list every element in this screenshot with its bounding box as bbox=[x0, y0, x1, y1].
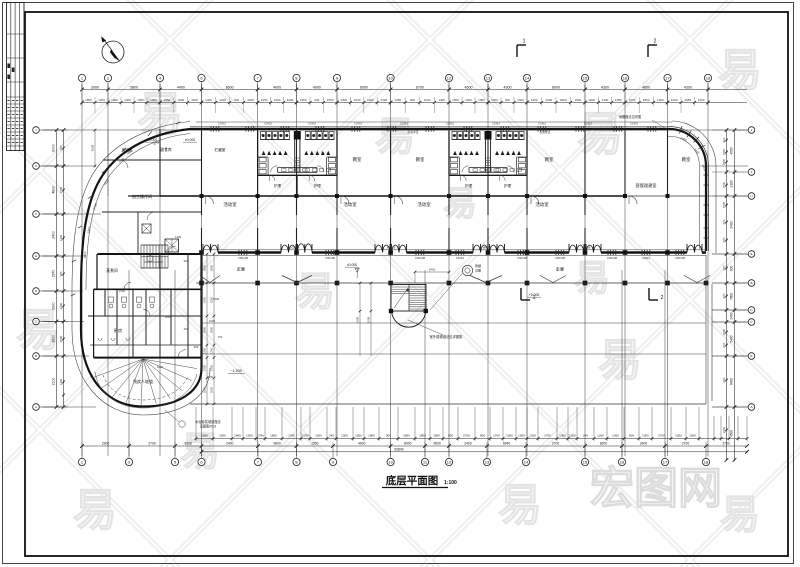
svg-text:1950: 1950 bbox=[615, 98, 622, 102]
svg-text:M5028: M5028 bbox=[582, 246, 591, 250]
svg-text:C5012B: C5012B bbox=[675, 256, 685, 260]
svg-text:14: 14 bbox=[525, 75, 530, 80]
svg-text:C2415: C2415 bbox=[264, 122, 272, 126]
svg-text:8200: 8200 bbox=[600, 441, 608, 445]
svg-text:5800: 5800 bbox=[130, 85, 138, 89]
svg-text:18: 18 bbox=[706, 75, 711, 80]
svg-text:1300: 1300 bbox=[341, 434, 348, 438]
svg-text:±0.000: ±0.000 bbox=[185, 138, 195, 142]
svg-text:2400: 2400 bbox=[464, 441, 472, 445]
svg-text:900: 900 bbox=[386, 434, 391, 438]
svg-text:1780: 1780 bbox=[288, 434, 295, 438]
svg-text:4000: 4000 bbox=[313, 85, 321, 89]
svg-text:1500: 1500 bbox=[177, 98, 184, 102]
svg-text:2400: 2400 bbox=[722, 158, 726, 165]
svg-text:教室: 教室 bbox=[545, 156, 554, 163]
svg-text:1800: 1800 bbox=[643, 98, 650, 102]
svg-text:1500: 1500 bbox=[85, 98, 92, 102]
svg-text:活动室: 活动室 bbox=[417, 201, 431, 208]
svg-text:1950: 1950 bbox=[327, 98, 334, 102]
svg-text:M5028: M5028 bbox=[483, 246, 492, 250]
svg-text:1300: 1300 bbox=[340, 98, 347, 102]
svg-text:3900: 3900 bbox=[91, 85, 99, 89]
svg-text:900: 900 bbox=[59, 145, 63, 150]
svg-text:1400: 1400 bbox=[491, 98, 498, 102]
svg-text:1400: 1400 bbox=[367, 98, 374, 102]
svg-text:960: 960 bbox=[194, 345, 199, 349]
svg-text:1400: 1400 bbox=[124, 98, 131, 102]
svg-text:69840: 69840 bbox=[394, 448, 403, 452]
svg-text:1200: 1200 bbox=[545, 98, 552, 102]
svg-text:2100: 2100 bbox=[52, 378, 56, 386]
svg-text:16: 16 bbox=[620, 459, 625, 464]
svg-text:E: E bbox=[35, 254, 37, 258]
svg-text:4500: 4500 bbox=[730, 147, 734, 154]
svg-text:2700: 2700 bbox=[544, 434, 551, 438]
svg-text:C5012B: C5012B bbox=[238, 256, 248, 260]
svg-text:4300: 4300 bbox=[601, 85, 609, 89]
svg-text:1200: 1200 bbox=[597, 434, 604, 438]
svg-text:H: H bbox=[750, 194, 752, 198]
svg-text:900: 900 bbox=[505, 98, 510, 102]
svg-text:C2415: C2415 bbox=[538, 122, 546, 126]
svg-text:1500: 1500 bbox=[59, 335, 63, 342]
svg-text:2900: 2900 bbox=[209, 264, 213, 271]
svg-text:贮藏室: 贮藏室 bbox=[215, 147, 226, 152]
svg-text:1:100: 1:100 bbox=[444, 480, 457, 486]
svg-text:1500: 1500 bbox=[518, 434, 525, 438]
svg-text:14: 14 bbox=[524, 459, 529, 464]
svg-text:16: 16 bbox=[623, 75, 628, 80]
svg-text:雨棚: 雨棚 bbox=[475, 263, 481, 268]
svg-text:900: 900 bbox=[722, 293, 726, 298]
svg-text:1500: 1500 bbox=[722, 148, 726, 155]
svg-text:活动室: 活动室 bbox=[223, 201, 237, 208]
svg-text:900: 900 bbox=[184, 259, 189, 263]
svg-text:护理: 护理 bbox=[274, 183, 282, 188]
svg-text:4400: 4400 bbox=[177, 85, 185, 89]
svg-text:600: 600 bbox=[722, 265, 726, 270]
svg-text:1400: 1400 bbox=[517, 98, 524, 102]
svg-text:900: 900 bbox=[448, 434, 453, 438]
svg-text:1500: 1500 bbox=[246, 434, 253, 438]
svg-text:1950: 1950 bbox=[395, 98, 402, 102]
svg-text:易: 易 bbox=[574, 257, 610, 298]
svg-text:1600: 1600 bbox=[157, 365, 164, 369]
svg-text:B: B bbox=[35, 354, 37, 358]
svg-text:1600: 1600 bbox=[629, 98, 636, 102]
svg-text:18: 18 bbox=[704, 459, 709, 464]
svg-text:易: 易 bbox=[443, 185, 477, 223]
svg-text:900: 900 bbox=[410, 98, 415, 102]
svg-text:8200: 8200 bbox=[185, 441, 193, 445]
svg-text:残疾人坡道: 残疾人坡道 bbox=[133, 378, 153, 384]
svg-text:1500: 1500 bbox=[219, 434, 226, 438]
svg-text:240: 240 bbox=[583, 434, 588, 438]
svg-text:1800: 1800 bbox=[270, 434, 277, 438]
svg-text:1300: 1300 bbox=[150, 98, 157, 102]
svg-text:1950: 1950 bbox=[261, 98, 268, 102]
svg-text:C5012B: C5012B bbox=[517, 256, 527, 260]
svg-text:C3612: C3612 bbox=[642, 256, 651, 260]
svg-text:1000: 1000 bbox=[209, 319, 216, 323]
svg-text:1400: 1400 bbox=[438, 98, 445, 102]
svg-text:副食库: 副食库 bbox=[160, 147, 172, 152]
svg-text:17: 17 bbox=[665, 75, 670, 80]
svg-text:17: 17 bbox=[663, 459, 668, 464]
svg-text:4500: 4500 bbox=[465, 85, 473, 89]
svg-text:8000: 8000 bbox=[404, 441, 412, 445]
svg-text:1200: 1200 bbox=[59, 234, 63, 241]
svg-text:6700: 6700 bbox=[416, 85, 424, 89]
svg-text:1200: 1200 bbox=[671, 98, 678, 102]
svg-text:M5028: M5028 bbox=[288, 246, 297, 250]
svg-text:4300: 4300 bbox=[684, 85, 692, 89]
svg-text:1000: 1000 bbox=[478, 98, 485, 102]
svg-text:10: 10 bbox=[388, 75, 393, 80]
svg-text:900: 900 bbox=[234, 98, 239, 102]
svg-text:2700: 2700 bbox=[682, 441, 690, 445]
svg-text:1800: 1800 bbox=[213, 297, 220, 301]
svg-text:见图集05J1: 见图集05J1 bbox=[200, 424, 217, 429]
svg-text:10: 10 bbox=[388, 459, 393, 464]
svg-text:2600: 2600 bbox=[165, 315, 172, 319]
svg-text:+0.000: +0.000 bbox=[529, 293, 540, 297]
svg-text:2100: 2100 bbox=[730, 180, 734, 187]
svg-text:F: F bbox=[35, 212, 37, 216]
svg-text:4800: 4800 bbox=[52, 186, 56, 194]
svg-text:1800: 1800 bbox=[403, 434, 410, 438]
svg-text:详图: 详图 bbox=[475, 268, 481, 273]
svg-text:1600: 1600 bbox=[381, 98, 388, 102]
svg-text:12: 12 bbox=[447, 459, 452, 464]
svg-text:C4012: C4012 bbox=[456, 256, 465, 260]
svg-text:4600: 4600 bbox=[358, 441, 366, 445]
svg-text:活动室: 活动室 bbox=[343, 201, 357, 208]
svg-text:−1.200: −1.200 bbox=[230, 369, 242, 373]
svg-text:700: 700 bbox=[218, 335, 223, 339]
svg-text:易: 易 bbox=[720, 493, 760, 537]
svg-text:4000: 4000 bbox=[90, 144, 94, 151]
svg-text:900: 900 bbox=[629, 434, 634, 438]
svg-text:1800: 1800 bbox=[83, 251, 88, 258]
svg-text:1000: 1000 bbox=[574, 98, 581, 102]
svg-text:教室: 教室 bbox=[682, 156, 691, 163]
svg-text:6000: 6000 bbox=[52, 144, 56, 152]
svg-text:4600: 4600 bbox=[642, 85, 650, 89]
svg-text:8600: 8600 bbox=[226, 85, 234, 89]
svg-text:1300: 1300 bbox=[612, 434, 619, 438]
svg-text:2400: 2400 bbox=[429, 268, 436, 272]
svg-text:1200: 1200 bbox=[675, 434, 682, 438]
svg-text:4500: 4500 bbox=[433, 441, 441, 445]
svg-text:300: 300 bbox=[184, 327, 189, 331]
svg-text:高窗详见: 高窗详见 bbox=[539, 130, 550, 134]
svg-text:600: 600 bbox=[722, 342, 726, 347]
svg-text:教室: 教室 bbox=[416, 156, 425, 163]
svg-text:1300: 1300 bbox=[602, 98, 609, 102]
svg-text:15: 15 bbox=[583, 459, 588, 464]
svg-text:易: 易 bbox=[598, 336, 642, 385]
svg-text:600: 600 bbox=[722, 377, 726, 382]
svg-text:3300: 3300 bbox=[52, 302, 56, 310]
svg-text:C5012B: C5012B bbox=[415, 256, 425, 260]
svg-text:1400: 1400 bbox=[175, 235, 182, 239]
svg-text:2400: 2400 bbox=[52, 231, 56, 239]
svg-text:蒸煮间: 蒸煮间 bbox=[106, 268, 118, 273]
svg-text:2900: 2900 bbox=[209, 326, 213, 333]
svg-text:4000: 4000 bbox=[273, 85, 281, 89]
svg-text:1400: 1400 bbox=[205, 98, 212, 102]
svg-text:2900: 2900 bbox=[202, 326, 206, 333]
svg-text:底层平面图: 底层平面图 bbox=[386, 474, 439, 487]
svg-text:1400: 1400 bbox=[247, 98, 254, 102]
svg-text:厨房: 厨房 bbox=[114, 327, 122, 334]
svg-text:2400: 2400 bbox=[59, 302, 63, 309]
svg-text:易: 易 bbox=[295, 270, 335, 314]
svg-text:C2415: C2415 bbox=[218, 122, 226, 126]
svg-text:1500: 1500 bbox=[59, 186, 63, 193]
svg-text:易: 易 bbox=[577, 108, 623, 160]
svg-text:1950: 1950 bbox=[300, 98, 307, 102]
svg-text:2900: 2900 bbox=[202, 264, 206, 271]
svg-text:C2415: C2415 bbox=[354, 122, 362, 126]
svg-text:900: 900 bbox=[480, 434, 485, 438]
svg-text:C5012B: C5012B bbox=[325, 256, 335, 260]
svg-text:C2415: C2415 bbox=[308, 122, 316, 126]
svg-text:1500: 1500 bbox=[355, 434, 362, 438]
svg-text:600: 600 bbox=[722, 219, 726, 224]
svg-text:护理: 护理 bbox=[314, 183, 322, 188]
svg-text:2970: 2970 bbox=[52, 270, 56, 278]
svg-text:1950: 1950 bbox=[684, 98, 691, 102]
svg-text:1200: 1200 bbox=[209, 347, 213, 354]
svg-text:M5028: M5028 bbox=[387, 246, 396, 250]
svg-text:1500: 1500 bbox=[506, 434, 513, 438]
svg-text:4300: 4300 bbox=[504, 85, 512, 89]
svg-text:1: 1 bbox=[523, 39, 526, 45]
svg-text:2400: 2400 bbox=[730, 221, 734, 228]
svg-text:护理: 护理 bbox=[504, 183, 512, 188]
svg-text:1500: 1500 bbox=[722, 201, 726, 208]
svg-text:2700: 2700 bbox=[552, 441, 560, 445]
svg-text:2400: 2400 bbox=[722, 426, 726, 433]
svg-text:900: 900 bbox=[59, 271, 63, 276]
svg-text:900: 900 bbox=[730, 266, 734, 272]
svg-text:5400: 5400 bbox=[730, 335, 734, 342]
svg-text:教室: 教室 bbox=[353, 156, 362, 163]
svg-text:900: 900 bbox=[314, 98, 319, 102]
svg-text:1000: 1000 bbox=[111, 98, 118, 102]
svg-text:A: A bbox=[35, 405, 37, 409]
svg-text:13: 13 bbox=[485, 459, 490, 464]
svg-text:1800: 1800 bbox=[433, 434, 440, 438]
svg-text:C5012B: C5012B bbox=[607, 256, 617, 260]
svg-text:240: 240 bbox=[329, 434, 334, 438]
svg-text:1200: 1200 bbox=[59, 378, 63, 385]
svg-text:2100: 2100 bbox=[202, 364, 206, 371]
svg-text:B: B bbox=[750, 354, 752, 358]
svg-text:1860: 1860 bbox=[234, 434, 241, 438]
svg-text:2700: 2700 bbox=[658, 434, 665, 438]
svg-text:1500: 1500 bbox=[689, 434, 696, 438]
svg-text:6000: 6000 bbox=[360, 85, 368, 89]
svg-text:2700: 2700 bbox=[493, 434, 500, 438]
svg-text:8000: 8000 bbox=[552, 85, 560, 89]
svg-text:1300: 1300 bbox=[657, 98, 664, 102]
svg-text:2300: 2300 bbox=[102, 441, 110, 445]
svg-text:易: 易 bbox=[498, 481, 542, 530]
svg-text:走廊: 走廊 bbox=[556, 266, 564, 273]
svg-text:1300: 1300 bbox=[531, 98, 538, 102]
svg-text:C2415: C2415 bbox=[584, 122, 592, 126]
svg-text:2400: 2400 bbox=[226, 441, 234, 445]
svg-text:2100: 2100 bbox=[209, 364, 213, 371]
svg-text:1600: 1600 bbox=[424, 98, 431, 102]
svg-text:E: E bbox=[750, 252, 752, 256]
svg-text:A: A bbox=[750, 405, 752, 409]
svg-text:K: K bbox=[35, 164, 37, 168]
svg-text:2400: 2400 bbox=[207, 375, 214, 379]
svg-text:C2415: C2415 bbox=[630, 122, 638, 126]
svg-text:1000: 1000 bbox=[354, 98, 361, 102]
svg-text:C2415: C2415 bbox=[446, 122, 454, 126]
svg-text:2400: 2400 bbox=[730, 312, 734, 319]
svg-text:易: 易 bbox=[375, 115, 415, 159]
svg-text:4500: 4500 bbox=[730, 430, 734, 437]
svg-text:1600: 1600 bbox=[698, 98, 705, 102]
svg-text:3300: 3300 bbox=[202, 296, 206, 303]
svg-text:8400: 8400 bbox=[730, 378, 734, 385]
svg-text:12: 12 bbox=[447, 75, 452, 80]
svg-text:2: 2 bbox=[654, 39, 657, 45]
svg-text:加工操作间: 加工操作间 bbox=[132, 193, 152, 199]
svg-text:高窗详见: 高窗详见 bbox=[407, 130, 418, 134]
svg-text:2: 2 bbox=[661, 295, 664, 301]
svg-text:1780: 1780 bbox=[257, 434, 264, 438]
svg-text:1300: 1300 bbox=[219, 98, 226, 102]
svg-text:1500: 1500 bbox=[311, 441, 319, 445]
svg-text:护理: 护理 bbox=[465, 183, 473, 188]
svg-text:走廊: 走廊 bbox=[237, 266, 245, 273]
svg-text:2700: 2700 bbox=[463, 434, 470, 438]
svg-text:营管理建室: 营管理建室 bbox=[636, 182, 657, 189]
svg-text:雨棚做法见详图: 雨棚做法见详图 bbox=[619, 114, 641, 119]
svg-text:易: 易 bbox=[16, 306, 60, 355]
svg-text:±0.000: ±0.000 bbox=[347, 263, 357, 267]
svg-text:900: 900 bbox=[722, 137, 726, 142]
svg-text:2700: 2700 bbox=[722, 441, 730, 445]
svg-text:C2415: C2415 bbox=[492, 122, 500, 126]
svg-text:1200: 1200 bbox=[588, 98, 595, 102]
svg-text:1950: 1950 bbox=[164, 98, 171, 102]
svg-text:1000: 1000 bbox=[274, 98, 281, 102]
svg-text:2600: 2600 bbox=[202, 386, 206, 393]
svg-text:3300: 3300 bbox=[355, 316, 359, 323]
svg-text:7800: 7800 bbox=[730, 293, 734, 300]
svg-text:1500: 1500 bbox=[201, 434, 208, 438]
svg-text:水泥砂浆坡道做法: 水泥砂浆坡道做法 bbox=[195, 419, 221, 424]
svg-text:2700: 2700 bbox=[148, 441, 156, 445]
svg-text:1860: 1860 bbox=[368, 434, 375, 438]
svg-text:B: B bbox=[750, 281, 752, 285]
svg-text:600: 600 bbox=[722, 237, 726, 242]
svg-text:1500: 1500 bbox=[119, 289, 126, 293]
svg-text:1500: 1500 bbox=[722, 328, 726, 335]
svg-text:2700: 2700 bbox=[302, 434, 309, 438]
svg-text:1950: 1950 bbox=[137, 98, 144, 102]
svg-text:1300: 1300 bbox=[642, 434, 649, 438]
svg-text:1200: 1200 bbox=[529, 434, 536, 438]
svg-text:活动室: 活动室 bbox=[535, 201, 549, 208]
svg-text:1600: 1600 bbox=[191, 98, 198, 102]
svg-text:13: 13 bbox=[486, 75, 491, 80]
svg-text:C5012B: C5012B bbox=[555, 256, 565, 260]
svg-text:1500: 1500 bbox=[366, 316, 370, 323]
svg-text:1500: 1500 bbox=[569, 434, 576, 438]
svg-text:1500: 1500 bbox=[315, 434, 322, 438]
svg-text:1300: 1300 bbox=[559, 434, 566, 438]
svg-text:易: 易 bbox=[73, 486, 117, 535]
svg-text:易: 易 bbox=[718, 46, 762, 95]
svg-text:1600: 1600 bbox=[465, 98, 472, 102]
svg-text:6940: 6940 bbox=[503, 441, 511, 445]
svg-text:9600: 9600 bbox=[274, 441, 282, 445]
svg-text:1200: 1200 bbox=[98, 98, 105, 102]
svg-text:宏图网: 宏图网 bbox=[590, 464, 722, 513]
svg-text:1800: 1800 bbox=[419, 434, 426, 438]
svg-text:2400: 2400 bbox=[640, 441, 648, 445]
svg-text:3600: 3600 bbox=[52, 335, 56, 343]
svg-text:1200: 1200 bbox=[202, 347, 206, 354]
svg-text:室外楼梯做法见详图集: 室外楼梯做法见详图集 bbox=[430, 334, 464, 339]
svg-text:1600: 1600 bbox=[452, 98, 459, 102]
svg-text:1800: 1800 bbox=[560, 98, 567, 102]
svg-text:2600: 2600 bbox=[209, 386, 213, 393]
svg-text:15: 15 bbox=[583, 75, 588, 80]
svg-text:1000: 1000 bbox=[287, 98, 294, 102]
svg-text:C2415: C2415 bbox=[400, 122, 408, 126]
svg-text:1500: 1500 bbox=[722, 181, 726, 188]
